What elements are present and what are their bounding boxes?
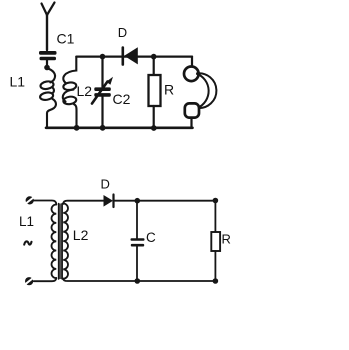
capacitor C2 plates: [94, 87, 111, 96]
capacitor C1: [39, 51, 57, 60]
transformer secondary winding L2: [63, 204, 68, 279]
svg-text:C1: C1: [57, 30, 75, 46]
svg-text:C2: C2: [113, 91, 131, 107]
node junction dot: [44, 65, 50, 71]
svg-text:R: R: [222, 232, 231, 247]
diode D (bottom) triangle: [104, 195, 114, 207]
terminal bottom: [25, 277, 33, 285]
wire secondary top to diode: [63, 201, 103, 204]
wire headphone riser bottom: [190, 118, 192, 128]
wire top rail: [76, 55, 192, 57]
capacitor C riser bottom: [136, 246, 138, 281]
resistor R (bottom): [211, 232, 220, 251]
capacitor C plates: [131, 238, 145, 246]
transformer core: [58, 204, 62, 280]
junction dot R top: [151, 54, 157, 60]
junction dot R bottom right: [213, 278, 219, 284]
svg-text:L1: L1: [10, 74, 26, 90]
terminal top: [26, 196, 34, 204]
wire bottom rail (bottom circuit): [63, 279, 215, 281]
junction dot L2 bottom: [74, 125, 80, 131]
capacitor C2 arrow: [92, 82, 108, 104]
wire R riser top (bottom circuit): [214, 201, 216, 232]
junction dot C2 bottom: [100, 125, 106, 131]
wire headphone riser top: [191, 57, 193, 67]
svg-text:D: D: [101, 177, 110, 192]
junction dot C2 top: [100, 54, 106, 60]
svg-text:R: R: [164, 82, 174, 98]
wire node to corner: [137, 200, 215, 202]
svg-text:C: C: [146, 230, 156, 245]
inductor L1: [39, 68, 55, 126]
headphone band: [196, 73, 216, 108]
svg-text:L2: L2: [77, 83, 93, 99]
wire R riser bottom: [153, 106, 155, 127]
svg-text:L2: L2: [73, 227, 89, 243]
variable capacitor C2 riser top: [101, 57, 103, 89]
diode D (top) cathode bar: [122, 48, 125, 65]
junction dot C bottom: [135, 278, 141, 284]
wire terminal top to transformer: [34, 201, 57, 205]
wire R riser bottom (bottom circuit): [214, 251, 216, 281]
transformer primary winding L1: [51, 205, 56, 279]
diode D (top) triangle: [124, 47, 138, 64]
wire C1 to L1: [46, 60, 48, 66]
inductor L2: [63, 57, 77, 126]
resistor R (top): [149, 75, 161, 106]
svg-text:D: D: [118, 25, 127, 40]
headphone earpiece top: [184, 67, 199, 82]
wire bottom rail (top circuit): [46, 127, 193, 130]
junction dot C top: [135, 198, 141, 204]
tilde AC symbol: [24, 241, 31, 244]
capacitor C riser top: [136, 201, 138, 239]
wire transformer primary bottom to terminal: [34, 278, 57, 281]
junction dot R bottom: [151, 125, 157, 131]
headphone earpiece bottom: [185, 103, 199, 117]
diode D (bottom) cathode bar: [112, 195, 114, 208]
junction dot corner top right: [213, 198, 219, 204]
svg-text:L1: L1: [19, 214, 34, 229]
antenna: [42, 3, 55, 51]
wire diode to node: [115, 200, 138, 202]
wire C2 riser bottom: [101, 97, 103, 127]
wire R riser top: [153, 57, 155, 75]
